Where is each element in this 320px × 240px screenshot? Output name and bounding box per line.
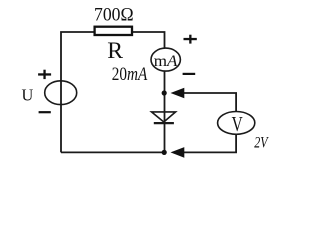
svg-text:mA: mA	[154, 53, 178, 70]
svg-text:U: U	[22, 86, 34, 105]
svg-text:2V: 2V	[254, 134, 269, 151]
svg-text:700Ω: 700Ω	[94, 5, 134, 26]
svg-text:20mA: 20mA	[112, 64, 148, 85]
svg-text:V: V	[232, 113, 244, 136]
svg-text:R: R	[107, 38, 123, 63]
